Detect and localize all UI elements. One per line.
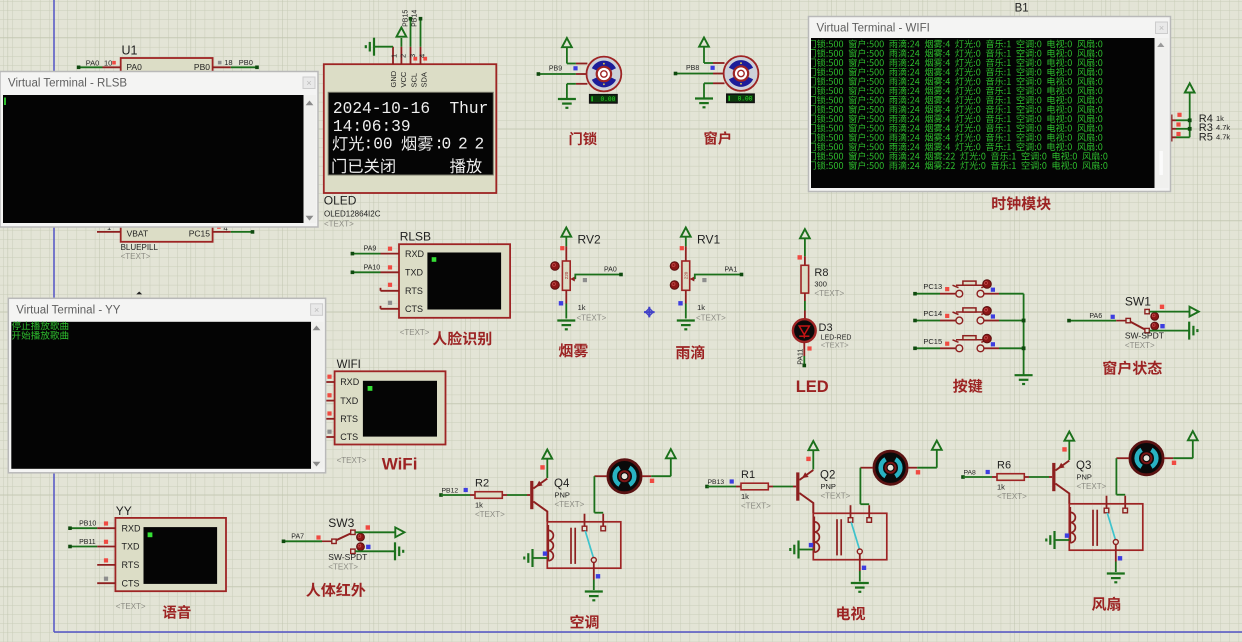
svg-text:VCC: VCC: [399, 71, 408, 87]
svg-text:<TEXT>: <TEXT>: [821, 341, 850, 350]
transistor Q3 base pin: [1049, 476, 1052, 478]
label voice chinese: [163, 605, 191, 619]
ground below pot RV2: [557, 319, 575, 321]
pin state square motor: [916, 470, 920, 474]
pin state square coil: [809, 543, 813, 547]
screen green pixel: [148, 532, 153, 537]
wire R3 to bus: [1176, 128, 1190, 130]
ground below buttons: [1015, 374, 1033, 376]
label face recognition chinese: [433, 331, 492, 345]
wire motor lower pin to ground: [704, 82, 713, 84]
relay core: [1092, 510, 1094, 546]
node PB11 endpoint: [68, 545, 72, 549]
pin VBAT stub: [97, 231, 121, 233]
wire PA9: [352, 253, 380, 255]
pot adjust knob bottom: [670, 281, 679, 290]
motor 门锁 rpm readout: [590, 95, 617, 103]
resistor R3 stub: [1166, 128, 1176, 130]
node PA1 endpoint: [740, 273, 744, 277]
pot bottom pin: [565, 290, 567, 303]
fan motor hub: [886, 463, 896, 473]
relay coil: [814, 522, 819, 552]
motor 门锁 body: [587, 57, 622, 92]
label buttons chinese: [953, 379, 982, 393]
svg-text:U1: U1: [122, 44, 138, 58]
node PA0 endpoint: [619, 273, 623, 277]
fan motor body: [1130, 442, 1163, 475]
oled pin4 SDA stub: [420, 47, 422, 64]
pin state square: [464, 488, 468, 492]
resistor R2 left pin: [470, 494, 475, 496]
pot RV1 power arrow: [681, 228, 691, 237]
ground below relay: [585, 590, 603, 592]
junction node: [1188, 118, 1192, 122]
pin state square: [316, 535, 320, 539]
button right contact: [977, 290, 984, 297]
button PC14 wire left: [915, 320, 940, 322]
relay core: [836, 519, 838, 555]
pin state square blue: [991, 288, 995, 292]
svg-text:GND: GND: [389, 70, 398, 87]
button state knob: [983, 334, 992, 343]
pin state square: [388, 265, 392, 269]
switch pole contact: [332, 539, 336, 543]
svg-text:PC15: PC15: [923, 337, 942, 346]
relay NO pin: [1124, 496, 1126, 509]
node PC13 endpoint: [913, 292, 917, 296]
svg-text:<TEXT>: <TEXT>: [116, 602, 146, 611]
ground symbol below motor: [558, 98, 576, 100]
wire motor to power: [917, 467, 937, 469]
wire PA10: [352, 271, 380, 273]
relay body: [547, 522, 621, 568]
label 窗户 chinese: [704, 131, 730, 145]
motor lower pin stub: [576, 83, 588, 85]
svg-text:B1: B1: [1015, 3, 1029, 15]
module RLSB screen: [427, 253, 501, 310]
svg-text:<TEXT>: <TEXT>: [121, 252, 151, 261]
svg-text:PA10: PA10: [364, 264, 381, 271]
svg-text:WIFI: WIFI: [337, 359, 361, 371]
wire D3 to PA11: [803, 356, 805, 366]
svg-text:PA1: PA1: [725, 267, 738, 274]
pin state square: [945, 314, 949, 318]
scrollbar thumb: [1159, 151, 1163, 175]
button right pin: [984, 293, 999, 295]
relay NO pin: [868, 505, 870, 518]
svg-text:4.7k: 4.7k: [1216, 123, 1230, 132]
pin state squares: [1177, 113, 1181, 117]
pot top pin: [565, 246, 567, 261]
relay common pin: [850, 505, 852, 518]
node PB9 endpoint: [537, 72, 541, 76]
switch upper throw contact: [1145, 309, 1149, 313]
svg-text:PB15: PB15: [403, 10, 410, 27]
svg-text:PC14: PC14: [923, 309, 942, 318]
svg-text:<TEXT>: <TEXT>: [696, 313, 726, 322]
terminal YY text line1: [12, 321, 68, 330]
svg-text:PA9: PA9: [364, 246, 377, 253]
pin state square blue: [991, 314, 995, 318]
wire PA0 to U1 pin 10: [79, 66, 103, 68]
wire button to bus: [999, 293, 1024, 295]
svg-text:<TEXT>: <TEXT>: [1125, 341, 1155, 350]
svg-text:D3: D3: [819, 322, 833, 334]
svg-text:1k: 1k: [1216, 114, 1224, 123]
resistor bodies edge behind window: [1171, 115, 1173, 142]
module YY screen: [144, 527, 218, 584]
relay pivot pin: [859, 554, 861, 571]
svg-text:TXD: TXD: [340, 396, 359, 406]
wire relay coil to ground: [1055, 539, 1070, 541]
svg-text:R8: R8: [814, 267, 828, 279]
wire motor lower pin to ground: [567, 83, 576, 85]
switch blade: [336, 533, 351, 540]
svg-text:PA6: PA6: [1089, 313, 1102, 320]
oled text line4: [332, 158, 394, 173]
svg-text:PB10: PB10: [79, 521, 96, 528]
svg-text:RTS: RTS: [122, 560, 140, 570]
svg-text:CTS: CTS: [122, 578, 140, 588]
ground right of switch: [394, 542, 396, 560]
pin state square wiper: [583, 278, 587, 282]
window Virtual Terminal - WIFI close button: [1156, 22, 1168, 34]
module WIFI screen: [363, 381, 437, 437]
wire pivot to ground: [1115, 562, 1117, 573]
svg-text:Q2: Q2: [820, 470, 835, 482]
pin state square: [1111, 315, 1115, 319]
motor shaft: [734, 66, 748, 80]
wire emitter to power: [1068, 441, 1070, 461]
power arrow right of motor: [1188, 431, 1198, 440]
wire R1 to Q2 base: [773, 486, 793, 488]
svg-text:1: 1: [390, 54, 399, 58]
power arrow above transistor: [1064, 432, 1074, 441]
screen green pixel: [432, 257, 437, 262]
svg-text:TXD: TXD: [405, 268, 424, 278]
pot adjust knob top: [670, 262, 679, 271]
pin state square: [104, 521, 108, 525]
pot adjust knob top: [551, 262, 560, 271]
pin state square lower: [1160, 324, 1164, 328]
wire motor to power: [651, 475, 671, 477]
svg-text:LED: LED: [796, 378, 829, 396]
node PA7 endpoint: [282, 540, 286, 544]
motor upper pin stub: [713, 62, 725, 64]
button right pin: [984, 347, 999, 349]
pin 4 stub: [213, 231, 231, 233]
svg-text:<TEXT>: <TEXT>: [997, 492, 1027, 501]
svg-text:18: 18: [224, 58, 232, 67]
pin state square pin3: [413, 57, 417, 61]
node PB8 endpoint: [674, 72, 678, 76]
fan motor right pin: [642, 475, 651, 477]
relay body: [813, 513, 887, 559]
oled text line3: [333, 136, 364, 151]
resistor R6 right pin: [1024, 476, 1029, 478]
svg-text:PA0: PA0: [604, 267, 617, 274]
node PA11 endpoint: [803, 364, 807, 368]
module RLSB body: [399, 244, 510, 318]
wire SCL PB15: [410, 19, 412, 47]
svg-text:<TEXT>: <TEXT>: [400, 328, 430, 337]
label human infrared chinese: [306, 583, 365, 597]
motor 窗户 power arrow: [699, 38, 709, 47]
resistor R1 body: [741, 483, 768, 490]
power arrow right: [395, 527, 404, 537]
relay common contact: [582, 526, 587, 531]
button state knob: [983, 307, 992, 316]
window Virtual Terminal - YY close button: [311, 304, 323, 316]
switch lower throw contact: [1145, 328, 1149, 332]
node PA9 endpoint: [351, 252, 355, 256]
svg-text:0.00: 0.00: [600, 96, 615, 103]
switch pole pin: [322, 540, 332, 542]
pin state square motor: [650, 479, 654, 483]
ground below relay: [851, 582, 869, 584]
pin state square: [1062, 447, 1066, 451]
pin state square: [104, 577, 108, 581]
wire button bus vertical: [1023, 294, 1025, 376]
ground symbol below motor: [695, 97, 713, 99]
relay pivot pin: [1115, 545, 1117, 562]
label 电视 chinese: [837, 606, 865, 620]
button PC13 wire left: [915, 293, 940, 295]
fan motor blades teal: [1137, 450, 1142, 467]
button left contact: [956, 345, 963, 352]
relay NO contact: [867, 518, 872, 523]
label 空调 chinese: [570, 615, 598, 629]
motor 窗户 body: [724, 56, 759, 91]
transistor Q4 base pin: [527, 494, 530, 496]
resistor R6 left pin: [992, 476, 997, 478]
switch SW3 wire PA7: [284, 540, 323, 542]
pin state square pivot: [862, 566, 866, 570]
svg-text:Q3: Q3: [1076, 460, 1091, 472]
button actuator: [953, 340, 959, 343]
screen green pixel: [368, 386, 373, 391]
wire power bus vertical: [1189, 92, 1191, 137]
relay blade: [1107, 513, 1115, 540]
power arrow right: [1190, 307, 1199, 317]
pin state square: [327, 411, 331, 415]
svg-text:Virtual Terminal - WIFI: Virtual Terminal - WIFI: [817, 23, 930, 35]
wire PC15: [231, 231, 253, 233]
svg-text:BLUEPILL: BLUEPILL: [121, 243, 159, 252]
relay core: [570, 528, 572, 564]
node PA6 endpoint: [1067, 319, 1071, 323]
svg-text:PB11: PB11: [79, 539, 96, 546]
svg-text:PC13: PC13: [923, 282, 942, 291]
wire motor to relay NO: [859, 468, 861, 505]
resistor R2 body: [475, 492, 502, 499]
svg-text:<TEXT>: <TEXT>: [475, 510, 505, 519]
wire relay coil to ground: [799, 549, 814, 551]
svg-text:WiFi: WiFi: [382, 455, 418, 474]
pin state square: [327, 430, 331, 434]
scrollbar up arrow: [306, 101, 314, 106]
fan motor blades teal: [615, 468, 620, 485]
ground symbol left of OLED: [373, 38, 375, 56]
pin state square pin4: [423, 57, 427, 61]
svg-text:1k: 1k: [741, 492, 749, 501]
transistor Q3 emitter with arrow: [1055, 461, 1069, 471]
svg-text:R6: R6: [997, 460, 1011, 472]
switch toggle knob lower: [1151, 322, 1159, 330]
svg-text:<TEXT>: <TEXT>: [741, 502, 771, 511]
svg-text:PC15: PC15: [189, 228, 211, 238]
pin state square bottom: [559, 301, 563, 305]
svg-text:SW1: SW1: [1125, 295, 1151, 309]
pin state square: [112, 61, 116, 65]
transistor Q2 collector: [799, 493, 813, 513]
svg-text:1k: 1k: [475, 501, 483, 510]
button left pin: [940, 347, 956, 349]
cursor cross marker: [644, 307, 655, 318]
resistor R8 bottom pin: [804, 293, 806, 301]
pin state square bottom: [678, 301, 682, 305]
sheet border horizontal blue line: [54, 631, 1242, 633]
svg-text:RTS: RTS: [340, 414, 358, 424]
ground left of relay coil: [797, 541, 799, 559]
svg-text:<TEXT>: <TEXT>: [555, 500, 585, 509]
transistor Q4 base bar: [530, 481, 533, 509]
sheet border vertical blue line: [53, 0, 55, 632]
node PA10 endpoint: [351, 271, 355, 275]
relay common contact: [1104, 508, 1109, 513]
pin state square top: [680, 246, 684, 250]
relay common contact: [848, 518, 853, 523]
oled pin2 VCC stub: [400, 47, 402, 64]
svg-text:<TEXT>: <TEXT>: [337, 456, 367, 465]
power arrow right of motor: [666, 449, 676, 458]
svg-text:VBAT: VBAT: [127, 228, 149, 238]
power arrow R8: [800, 229, 810, 238]
relay NO contact: [601, 526, 606, 531]
pot RV2 power arrow: [561, 228, 571, 237]
pin state square: [945, 287, 949, 291]
svg-text:PA0: PA0: [126, 62, 142, 72]
relay pivot contact: [1113, 540, 1118, 545]
svg-text:220: 220: [683, 271, 688, 279]
pin state square motor: [1172, 461, 1176, 465]
motor lower pin stub: [713, 82, 725, 84]
fan motor left pin: [860, 467, 873, 469]
window Virtual Terminal - WIFI frame: [809, 17, 1171, 192]
svg-text:PNP: PNP: [821, 482, 836, 491]
scrollbar up arrow: [313, 326, 321, 331]
origin triangle marker: [136, 292, 142, 295]
svg-text:PB0: PB0: [194, 62, 210, 72]
wire pot to ground: [685, 304, 687, 319]
pin state square: [388, 301, 392, 305]
node PB15 endpoint: [409, 17, 413, 21]
svg-text:OLED12864I2C: OLED12864I2C: [324, 209, 381, 218]
svg-text:0: 0: [442, 136, 452, 154]
wire emitter to power: [546, 459, 548, 479]
power arrow right of motor: [932, 441, 942, 450]
pin state square: [806, 457, 810, 461]
wire power to pot: [565, 237, 567, 247]
motor brush arc top: [732, 63, 751, 69]
svg-text:RV1: RV1: [697, 233, 720, 247]
terminal YY text line2: [12, 331, 68, 340]
svg-text:OLED: OLED: [324, 194, 357, 208]
fan motor right pin: [1164, 457, 1173, 459]
svg-text:2: 2: [458, 136, 468, 154]
svg-text:RXD: RXD: [405, 249, 425, 259]
svg-text:<TEXT>: <TEXT>: [821, 492, 851, 501]
node PA0 wire endpoint: [77, 66, 81, 70]
power arrow above transistor: [542, 450, 552, 459]
switch toggle knob upper: [357, 533, 365, 541]
wire lower throw to ground: [355, 550, 395, 552]
pin state square: [218, 61, 222, 65]
svg-text:1k: 1k: [578, 303, 586, 312]
button left pin: [940, 293, 956, 295]
svg-text:R2: R2: [475, 478, 489, 490]
wire pivot to ground: [859, 571, 861, 582]
wire SDA PB14: [420, 19, 422, 47]
svg-text:0.00: 0.00: [738, 95, 753, 102]
svg-text:220: 220: [564, 271, 569, 279]
pin state square pivot: [1118, 556, 1122, 560]
window Virtual Terminal - YY terminal area: [11, 322, 311, 469]
relay coil: [548, 530, 553, 560]
svg-text:2: 2: [399, 54, 408, 58]
ground left of relay coil: [1053, 531, 1055, 549]
ground below pot RV1: [677, 319, 695, 321]
svg-text:SCL: SCL: [409, 73, 418, 88]
relay body: [1069, 504, 1143, 550]
svg-text:14:06:39: 14:06:39: [333, 118, 411, 136]
wire pot to ground: [565, 304, 567, 319]
resistor R5 stub: [1166, 136, 1176, 138]
svg-text:R1: R1: [741, 469, 755, 481]
node PC14 endpoint: [913, 319, 917, 323]
switch toggle knob upper: [1151, 313, 1159, 321]
transistor Q4 emitter with arrow: [533, 479, 547, 489]
U1 second row sliver PB1: [213, 76, 231, 78]
motor 门锁 power arrow: [562, 38, 572, 47]
resistor R8 body: [801, 265, 809, 293]
svg-text:10: 10: [104, 59, 112, 68]
wire R5 to bus: [1176, 136, 1190, 138]
wire gnd pin1: [374, 46, 393, 48]
pin 18 stub: [213, 66, 231, 68]
svg-text:2: 2: [475, 136, 485, 154]
wire button to bus: [999, 347, 1024, 349]
window Virtual Terminal - YY frame: [8, 298, 325, 473]
pin state square pivot: [596, 574, 600, 578]
transistor Q2 emitter with arrow: [799, 470, 813, 480]
transistor Q2 base pin: [793, 486, 796, 488]
pin state square: [388, 283, 392, 287]
button right contact: [977, 345, 984, 352]
switch pole contact: [1126, 318, 1130, 322]
pin state square: [573, 66, 577, 70]
fan motor left pin: [594, 475, 607, 477]
pin state square: [327, 393, 331, 397]
relay blade: [851, 522, 859, 549]
transistor Q4 collector: [533, 502, 547, 522]
pin state square coil: [543, 551, 547, 555]
ground below relay: [1107, 572, 1125, 574]
pot RV1 body: [682, 261, 690, 290]
relay common pin: [584, 514, 586, 527]
svg-text:SW-SPDT: SW-SPDT: [1125, 331, 1164, 341]
svg-text:×: ×: [306, 78, 311, 88]
